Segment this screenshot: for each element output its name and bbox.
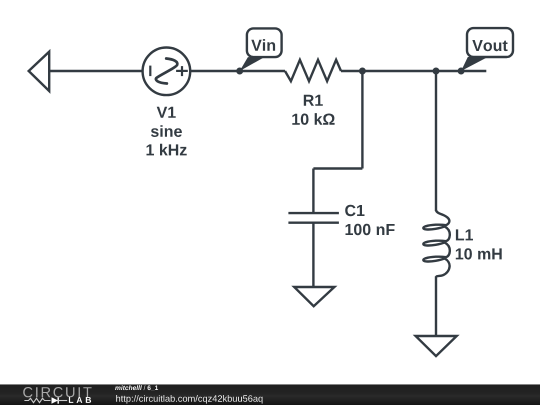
wire junction down (C1 branch vertical) <box>361 71 363 169</box>
label R1 name <box>304 95 323 106</box>
label Vin <box>251 39 275 51</box>
capacitor C1 top plate <box>288 212 339 214</box>
label C1 value 100 nF <box>346 224 395 235</box>
logo LAB text <box>69 397 91 403</box>
logo wire to LAB <box>58 400 67 402</box>
footer title mitchelll / 6_1 <box>115 385 158 391</box>
wire node to end <box>436 70 486 72</box>
voltage source V1 circle <box>143 48 191 96</box>
label Vout <box>472 40 507 51</box>
wire C1 to ground <box>312 223 314 287</box>
ground GND1 (rotated, left) <box>29 52 50 91</box>
ground GND3 below L1 <box>416 336 457 356</box>
capacitor C1 bottom plate <box>288 221 339 223</box>
logo CIRCUIT text <box>23 387 91 397</box>
flag Vin box <box>247 28 282 57</box>
logo diode icon <box>52 397 59 403</box>
wire R1 to junction <box>341 70 362 72</box>
wire C1 branch horizontal <box>313 167 362 169</box>
wire down to C1 <box>312 169 314 214</box>
node dot Vin <box>236 68 243 75</box>
ground GND2 below C1 <box>294 287 334 306</box>
label V1 name <box>157 107 176 118</box>
wire node down to L1 <box>435 71 437 211</box>
wire junction to node <box>362 70 436 72</box>
wire GND1 to V1 <box>49 70 142 72</box>
V1 plus sign vertical <box>181 66 183 76</box>
wire V1 to R1 <box>190 70 285 72</box>
label L1 name <box>456 229 473 240</box>
logo resistor zigzag icon <box>24 398 50 402</box>
V1 plus sign horizontal <box>176 70 188 72</box>
label R1 value 10 kOhm <box>292 113 334 125</box>
wire L1 to ground <box>435 276 437 335</box>
flag Vout box <box>467 28 513 57</box>
junction dot after R1 <box>359 68 366 75</box>
inductor L1 coil <box>423 210 449 277</box>
label V1 value 1 kHz <box>147 144 187 156</box>
flag Vout tail wedge <box>461 57 488 71</box>
flag Vin tail wedge <box>240 57 265 71</box>
V1 minus sign <box>149 66 151 77</box>
label V1 type sine <box>151 125 182 137</box>
footer url <box>116 395 262 404</box>
node dot Vout <box>458 68 465 75</box>
V1 sine symbol <box>156 59 177 84</box>
footer bar <box>0 384 540 405</box>
label L1 value 10 mH <box>456 248 502 259</box>
resistor R1 zigzag <box>285 60 341 81</box>
junction dot at L1 top <box>433 68 440 75</box>
label C1 name <box>345 205 364 216</box>
